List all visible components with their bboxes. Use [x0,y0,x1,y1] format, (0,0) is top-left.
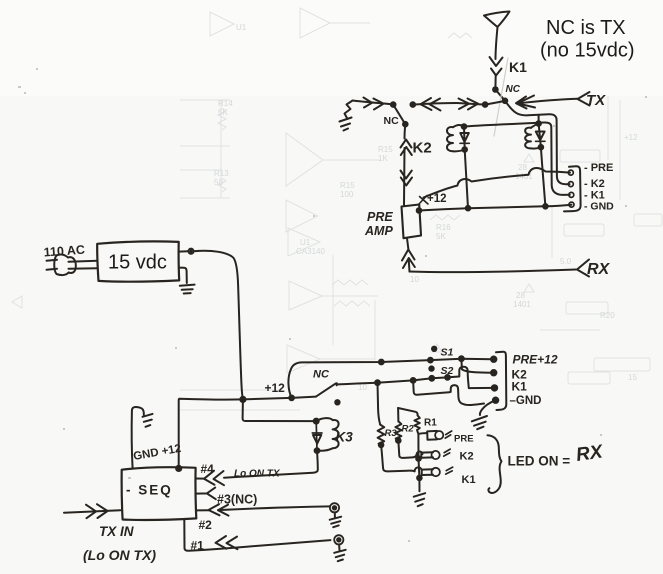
wire R2 top corner [398,408,418,415]
wire K2/S2 row [338,377,448,384]
svg-text:28: 28 [518,163,527,172]
pin #3 fork [196,488,216,500]
svg-text:110 AC: 110 AC [43,243,85,260]
wire +12 to PRE pin with hops [424,168,571,198]
arrowhead TX label end [578,92,590,106]
svg-text:50: 50 [214,178,223,187]
switch blade to NC contact [393,105,405,125]
wire switch to K1 coil bus [505,101,570,184]
svg-text:5.0: 5.0 [560,257,572,266]
wire row to GND pin with hop [448,367,494,388]
svg-text:+12: +12 [427,193,447,205]
J2 pins [491,357,496,362]
diode D-K1 [536,124,545,148]
svg-text:10: 10 [358,383,367,392]
wire antenna to switch [494,75,496,90]
relay coil K2 [447,127,453,151]
svg-text:15 vdc: 15 vdc [108,252,167,274]
svg-text:28: 28 [516,291,525,300]
arrows right on coax 2 [459,99,479,110]
pin #1 wire [184,520,330,551]
diode D-K2 [460,127,469,150]
power supply box 15vdc [97,241,179,281]
wire row to K1 pin with hop [413,380,484,405]
wire box to main +12 vertical [194,251,243,400]
ground at 15vdc box [179,268,187,283]
ground at seq [143,414,153,427]
stray pencil stroke [494,58,508,136]
svg-text:K3: K3 [336,430,354,445]
arrowheads on antenna lead [490,57,503,76]
svg-text:R13: R13 [214,169,229,178]
node S2 [429,366,433,370]
arrows into #2 [209,504,229,515]
ground top-left [345,101,353,120]
wire main coax line [353,101,392,105]
svg-text:Lo ON TX: Lo ON TX [234,469,281,480]
wire junction left to seq +12 [179,399,243,469]
resistor R2 [395,421,401,440]
faint printed background schematic [12,8,662,410]
wire K2 feedline with arrows [404,124,407,138]
wire K1 coil to gnd bus [541,147,546,206]
svg-text:+12: +12 [265,381,286,395]
arrowhead RX [577,260,589,277]
node antenna-switch [493,87,498,92]
node coax A [391,102,396,107]
svg-text:(no 15vdc): (no 15vdc) [540,40,635,62]
node floating contact [335,400,339,404]
svg-text:K1: K1 [509,59,527,75]
svg-text:K1: K1 [512,380,528,394]
svg-text:R2: R2 [402,424,415,435]
relay coil K3 [316,418,338,451]
connector J2 bracket [496,352,506,410]
svg-text:R15: R15 [340,181,355,190]
arrow TX IN [64,510,121,513]
svg-text:AMP: AMP [364,224,393,238]
arrow TX toward switch [516,96,535,109]
svg-text:TX IN: TX IN [99,524,134,539]
J1 pins [568,170,573,175]
terminal T2 [334,535,343,544]
x mark +12 tap [419,196,429,205]
light arrows PRE [445,431,452,438]
svg-text:1K: 1K [378,154,388,163]
svg-text:15: 15 [628,373,637,382]
svg-text:RX: RX [575,441,605,466]
svg-text:10: 10 [410,275,419,284]
node S1 [432,347,436,351]
ground LED chain [414,493,426,506]
svg-text:R3: R3 [385,428,398,439]
svg-text:CA3140: CA3140 [296,247,325,256]
plug 110AC [54,254,76,275]
sequencer box SEQ [122,467,197,520]
scan speckles [18,68,647,542]
svg-text:+12: +12 [624,133,638,142]
svg-text:(Lo ON TX): (Lo ON TX) [83,547,156,563]
wire seq gnd up [132,407,144,468]
pin #2 wire [196,506,330,510]
svg-text:- SEQ: - SEQ [126,483,173,498]
wire coax middle [413,103,457,105]
wire junction down to K3 [243,399,317,421]
wire R1 to LED PRE [417,430,418,434]
svg-text:#3(NC): #3(NC) [217,493,257,507]
ground at J2 [480,400,496,415]
wire K2 coil top bus [464,122,570,194]
svg-text:R20: R20 [600,311,615,320]
arrows into #1 [216,536,238,549]
node coax C [483,102,488,107]
svg-text:NC: NC [313,369,330,381]
svg-text:LED ON =: LED ON = [508,454,571,469]
svg-text:#4: #4 [201,462,215,476]
resistor R1 [414,416,419,431]
antenna [484,12,510,28]
svg-text:NC: NC [384,115,400,127]
LED PRE [418,431,437,440]
connector J1 bracket [564,166,581,211]
resistor R3 [378,425,385,445]
svg-text:K1: K1 [462,474,476,486]
wire preamp to GND pin [419,205,572,211]
svg-text:TX: TX [586,92,606,109]
cathode chain [418,434,419,491]
wire TX line [517,99,578,104]
svg-text:100: 100 [340,190,354,199]
svg-text:5K: 5K [218,108,228,117]
wire antenna lead [496,27,498,59]
arrows up on rx line [402,250,415,269]
svg-text:NC: NC [506,84,521,95]
svg-text:S2: S2 [441,365,454,377]
LED K2 [417,452,434,458]
svg-text:K2: K2 [413,140,432,157]
wire K3 to #4 (Lo ON TX) [224,451,318,478]
brace LED ON = RX [488,435,502,493]
svg-text:U1: U1 [236,23,247,32]
LED K1 [415,467,433,475]
wire S1 line [288,359,492,398]
arrows left on coax [421,98,441,111]
wire plug to box [69,261,98,269]
node main junction [240,397,245,402]
switch K1 blade [495,90,505,101]
svg-text:R16: R16 [436,223,451,232]
svg-text:R14: R14 [218,99,233,108]
svg-text:PRE: PRE [454,434,474,445]
terminal circle at box output [179,250,188,252]
arrows right on coax [364,98,384,110]
wire R2 to LED K2 [398,441,416,458]
arrows into #4 [204,471,224,486]
svg-text:R1: R1 [424,418,437,429]
wire R3 to LED K1 [381,445,415,472]
svg-text:K2: K2 [460,451,474,463]
wire K2 coil to gnd bus [465,150,468,209]
pin #4 stub [196,478,204,480]
wire preamp output down [407,238,409,250]
switch blade NC mid [316,383,337,396]
relay coil K1b [525,128,531,149]
light arrows K2 [444,449,451,456]
svg-text:- PRE: - PRE [584,162,613,174]
node coax B [411,102,416,107]
svg-text:- K2: - K2 [584,178,605,190]
svg-text:NC is TX: NC is TX [546,17,626,39]
light arrows K1 [446,467,453,474]
svg-text:#1: #1 [191,539,205,553]
svg-text:#2: #2 [199,518,213,532]
svg-text:R15: R15 [378,145,393,154]
diode D-K3 [312,421,322,451]
svg-text:–GND: –GND [510,395,542,407]
svg-text:PRE: PRE [367,210,393,224]
svg-text:U1: U1 [300,238,311,247]
svg-text:5K: 5K [436,232,446,241]
wire K1 coil tap [538,115,540,124]
svg-text:PRE+12: PRE+12 [513,353,558,367]
svg-text:S1: S1 [441,347,454,359]
svg-text:1401: 1401 [513,300,531,309]
wire RX line [410,270,577,273]
wire junction right +12 line [243,397,316,400]
terminal T1 [330,503,339,512]
wire feed resistors vertical [378,383,381,425]
wire S2 drop to K2 pin [461,359,492,373]
svg-text:- GND: - GND [584,201,614,213]
pre-amp box [402,205,422,239]
svg-text:RX: RX [587,261,611,278]
